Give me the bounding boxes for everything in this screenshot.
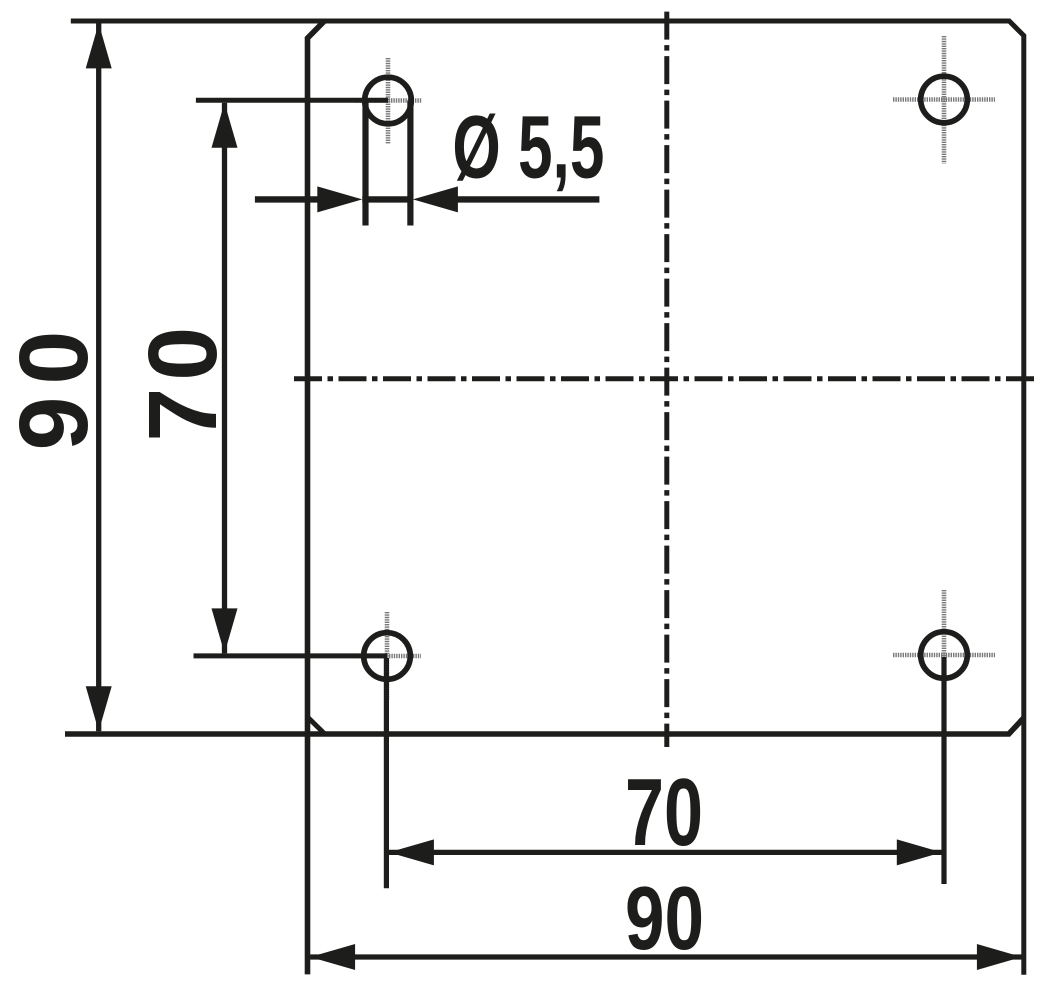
svg-text:Ø 5,5: Ø 5,5 (452, 97, 604, 197)
hole bottom-right (921, 632, 968, 679)
dim 70 left: line (222, 103, 227, 654)
plate bottom-left chamfer (308, 718, 324, 734)
hole top-left (365, 77, 412, 124)
dim 70 bottom: arrow right (897, 839, 942, 865)
dim dia5.5: left extension line (362, 101, 368, 226)
dim dia5.5: right extension line (407, 101, 413, 226)
crosshair hole top-right (893, 36, 995, 164)
dim 70 left: top extension line (196, 98, 388, 103)
dim dia5.5: left line segment (255, 196, 340, 202)
dim 70 bottom: arrow left (389, 839, 434, 865)
dim 70 left: arrow up (212, 103, 238, 148)
svg-text:70: 70 (625, 759, 703, 866)
crosshair hole bottom-right (893, 590, 995, 720)
dim 90 left: line (96, 23, 101, 731)
svg-text:70: 70 (128, 320, 237, 442)
dim 70 left: bottom extension line (194, 653, 388, 658)
centerline vertical (664, 12, 669, 747)
hole bottom-left (364, 633, 411, 680)
svg-text:90: 90 (0, 319, 108, 451)
dim dia5.5: right line segment (455, 196, 599, 202)
hole top-right (921, 76, 968, 123)
dim 70 bottom: right extension line (941, 657, 946, 884)
dim dia5.5: left arrow pointing right (317, 186, 362, 212)
dim 90 left: arrow down (86, 686, 112, 731)
dim 90 bottom: arrow left (310, 944, 355, 970)
centerline horizontal (294, 376, 1036, 381)
crosshair hole top-left (355, 58, 422, 144)
plate bottom edge (extended left) + bottom-right chamfer (65, 718, 1024, 734)
dim 90 bottom: line (310, 954, 1022, 959)
dim 90 left: arrow up (86, 23, 112, 68)
dim dia5.5: right arrow pointing left (413, 186, 458, 212)
dim dia5.5: middle segment (362, 196, 413, 202)
svg-text:90: 90 (625, 869, 704, 969)
dim 70 bottom: left extension line (384, 658, 389, 888)
dim 70 bottom: line (389, 850, 942, 855)
plate top-left chamfer + left edge (extended as 90-dim extension) (308, 21, 325, 974)
dim 90 bottom: arrow right (977, 944, 1022, 970)
crosshair hole bottom-left (353, 612, 421, 700)
dim 70 left: arrow down (212, 608, 238, 653)
